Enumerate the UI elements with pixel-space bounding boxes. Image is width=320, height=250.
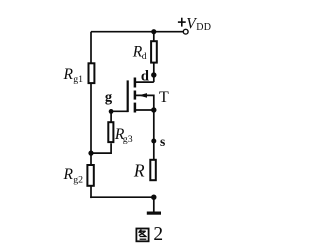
- wire: top supply rail: [91, 31, 183, 33]
- junction: source node: [151, 107, 156, 112]
- wire: node A to Rg3 bottom: [91, 143, 111, 153]
- svg-text:d: d: [141, 69, 149, 85]
- wire: Rg3 top to gate node g: [110, 111, 112, 121]
- wire: left branch middle (Rg1 to node A): [90, 84, 92, 153]
- label Rd: [132, 44, 147, 62]
- svg-text:g1: g1: [73, 74, 83, 85]
- channel segment: bulk: [134, 91, 137, 100]
- svg-text:s: s: [160, 134, 165, 149]
- label Rg2: [63, 166, 84, 185]
- svg-text:R: R: [63, 66, 74, 83]
- drain lead: [135, 81, 154, 83]
- junction: top rail / Rd branch: [151, 29, 156, 34]
- wire: left branch lower (Rg2 to bottom rail): [90, 187, 92, 199]
- svg-text:d: d: [142, 51, 147, 62]
- svg-text:R: R: [63, 166, 74, 183]
- source lead: [135, 109, 154, 111]
- wire: source node down to R: [153, 110, 155, 159]
- label +VDD: [178, 15, 211, 33]
- label Rg3: [114, 126, 133, 145]
- node d dot: [151, 72, 156, 77]
- resistor Rg1: [89, 63, 95, 83]
- node A junction dot: [88, 151, 93, 156]
- wire: gate lead: [111, 110, 128, 112]
- caption: 图 2: [136, 224, 163, 245]
- gate plate: [127, 80, 129, 112]
- node s dot: [151, 139, 156, 144]
- transistor T (N-channel MOSFET): [128, 78, 154, 113]
- bulk arrow lead: [135, 95, 154, 110]
- svg-text:R: R: [133, 160, 145, 180]
- resistor Rg2: [87, 165, 93, 186]
- resistor Rd: [151, 41, 157, 62]
- svg-text:T: T: [159, 89, 169, 106]
- ground: [147, 212, 161, 215]
- junction: bottom rail / ground: [151, 195, 156, 200]
- wire: Rd branch from rail: [153, 32, 155, 41]
- wire: left branch upper (rail to Rg1): [90, 32, 92, 63]
- label Rg1: [63, 66, 84, 85]
- resistor Rg3: [108, 122, 113, 142]
- terminal: +VDD open circle: [183, 29, 188, 34]
- svg-text:2: 2: [153, 224, 163, 245]
- channel segment: source: [134, 103, 137, 113]
- resistor R: [150, 160, 156, 180]
- wire: ground stub: [153, 197, 155, 212]
- svg-text:g3: g3: [123, 134, 133, 145]
- node g junction dot: [109, 109, 114, 114]
- wire: Rd to drain lead: [153, 63, 155, 82]
- wire: node A to Rg2: [90, 153, 92, 164]
- svg-text:g2: g2: [73, 175, 83, 186]
- wire: bottom rail: [90, 196, 154, 198]
- svg-text:DD: DD: [196, 22, 211, 33]
- arrowhead (points to channel): [138, 93, 147, 98]
- svg-text:g: g: [105, 90, 113, 106]
- channel segment: drain: [134, 78, 137, 88]
